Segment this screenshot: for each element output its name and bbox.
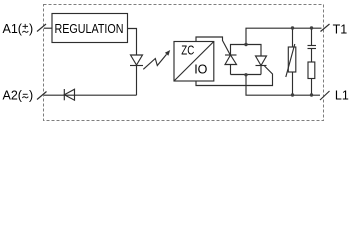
terminal tick L1 [320,91,330,100]
SCR Q2 (conducts down) [256,56,267,75]
diode D1 [64,89,74,100]
junction node varistor bottom [291,93,294,96]
wire gate right SCR return [196,66,273,86]
wire A1 input [44,27,52,29]
wire A2 bottom input [44,94,137,96]
regulation box U1 [52,14,128,43]
label A1 [3,22,34,36]
label A2 [3,89,34,103]
varistor RV1 [286,44,296,77]
symbol plus over tilde A1 [22,24,28,33]
terminal tick A1 [37,24,46,32]
junction node top rail / loop [244,43,247,46]
wire LED cathode down [136,66,138,96]
svg-text:L1: L1 [335,89,349,103]
wire gate left SCR [196,37,230,55]
capacitor C1 [308,28,317,62]
LED D2 [130,55,143,66]
light arrow (optocoupler) [143,50,170,69]
svg-text:IO: IO [194,63,207,77]
symbol minus over tilde A2 [22,94,28,98]
varistor RV1 leads [292,28,294,47]
junction node snubber bottom [310,93,313,96]
svg-text:): ) [29,89,33,103]
junction node snubber top [310,26,313,29]
wire regulation output to LED [128,29,137,56]
junction node bottom rail / loop [244,73,247,76]
wire bottom riser to output rail [246,75,320,96]
svg-text:REGULATION: REGULATION [55,22,124,36]
svg-text:T1: T1 [333,23,348,37]
svg-text:A1(: A1( [3,22,23,36]
svg-text:ZC: ZC [181,44,194,58]
junction node varistor top [291,26,294,29]
resistor R1 [308,62,315,95]
svg-text:): ) [29,22,33,36]
dashed enclosure border [44,5,324,121]
terminal tick A2 [37,92,47,100]
svg-text:A2(: A2( [3,89,23,103]
wire SCR loop bottom rail [231,74,262,76]
wire top rail riser [246,28,322,44]
wire SCR loop top rail [231,45,262,57]
ZC/IO box U2 [174,42,214,82]
SCR Q1 (conducts up) [225,55,237,75]
terminal tick T1 [321,24,330,32]
